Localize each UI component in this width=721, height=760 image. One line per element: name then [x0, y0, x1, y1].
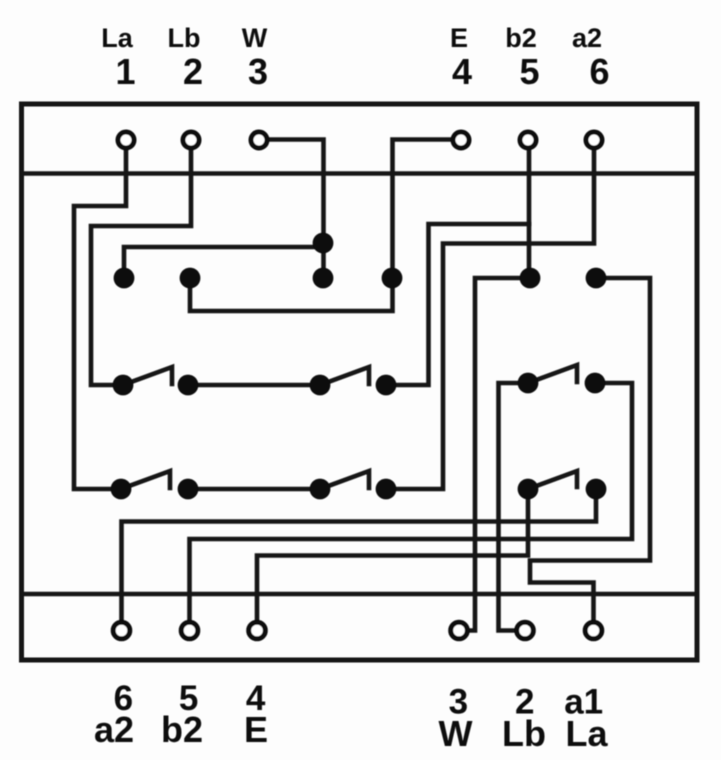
svg-text:2: 2 — [183, 51, 203, 92]
svg-text:W: W — [242, 23, 268, 53]
svg-text:6: 6 — [589, 51, 609, 92]
svg-text:b2: b2 — [161, 709, 203, 750]
svg-text:b2: b2 — [505, 23, 537, 53]
svg-text:E: E — [244, 709, 268, 750]
svg-text:Lb: Lb — [168, 23, 201, 53]
svg-text:4: 4 — [452, 51, 472, 92]
svg-text:La: La — [101, 23, 133, 53]
svg-text:3: 3 — [248, 51, 268, 92]
svg-text:1: 1 — [115, 51, 135, 92]
svg-text:a2: a2 — [572, 23, 602, 53]
svg-text:5: 5 — [519, 51, 539, 92]
svg-text:La: La — [565, 713, 608, 754]
svg-text:E: E — [450, 23, 468, 53]
svg-text:W: W — [439, 713, 473, 754]
svg-text:a2: a2 — [94, 709, 134, 750]
svg-text:Lb: Lb — [502, 713, 546, 754]
